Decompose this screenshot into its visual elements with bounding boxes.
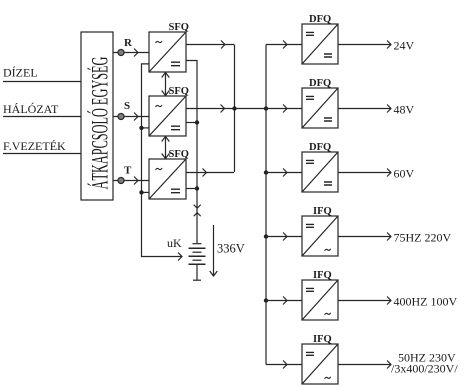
inverter IFQ 2 (400HZ 100V) bbox=[266, 270, 457, 320]
wire SFQ3 negative stub bbox=[186, 188, 197, 190]
rectifier SFQ 1 bbox=[149, 22, 189, 72]
wire SFQ1 left rail bbox=[142, 64, 183, 257]
arrow on R wire bbox=[134, 49, 138, 57]
converter DFQ 2 (48V) bbox=[266, 78, 415, 128]
disconnect symbol on battery line bbox=[194, 205, 201, 217]
node R bbox=[118, 49, 124, 55]
svg-text:24V: 24V bbox=[394, 38, 415, 52]
svg-text:75HZ 220V: 75HZ 220V bbox=[394, 230, 452, 244]
arrow on T wire bbox=[134, 177, 138, 185]
wire mains input line bbox=[3, 116, 81, 118]
double arrow between SFQ1 and SFQ2 bbox=[162, 72, 170, 96]
svg-text:336V: 336V bbox=[217, 242, 245, 256]
wire vertical link x=234 bbox=[234, 45, 236, 173]
junction main line / bus bbox=[264, 106, 268, 110]
wire phase R bbox=[113, 52, 149, 54]
svg-text:400HZ 100V: 400HZ 100V bbox=[394, 294, 458, 308]
svg-text:SFQ: SFQ bbox=[169, 22, 189, 33]
wire phase T bbox=[113, 180, 149, 182]
svg-text:60V: 60V bbox=[394, 166, 415, 180]
svg-text:IFQ: IFQ bbox=[313, 206, 332, 217]
svg-text:DÍZEL: DÍZEL bbox=[3, 66, 38, 80]
svg-text:HÁLÓZAT: HÁLÓZAT bbox=[3, 102, 59, 116]
svg-text:SFQ: SFQ bbox=[169, 86, 189, 97]
svg-text:IFQ: IFQ bbox=[313, 270, 332, 281]
wire SFQ3 output to vertical link bbox=[186, 172, 234, 174]
bus vertical line bbox=[265, 45, 267, 365]
rectifier SFQ 3 bbox=[149, 149, 189, 199]
svg-text:48V: 48V bbox=[394, 102, 415, 116]
arrow 336V voltage bbox=[210, 225, 218, 276]
svg-text:S: S bbox=[124, 100, 130, 112]
double arrow between SFQ2 and SFQ3 bbox=[162, 136, 170, 159]
junction bus 75HZ row bbox=[264, 234, 268, 238]
junction SFQ3 negative bbox=[195, 186, 199, 190]
wire SFQ2 left stub bbox=[142, 127, 150, 129]
wire SFQ1 output to vertical link bbox=[186, 44, 234, 46]
svg-text:/3x400/230V/: /3x400/230V/ bbox=[391, 362, 458, 376]
arrow uK toward battery bbox=[178, 253, 182, 261]
svg-text:T: T bbox=[124, 165, 132, 177]
svg-text:DFQ: DFQ bbox=[309, 142, 331, 153]
switching unit box ÁTKAPCSOLÓ EGYSÉG bbox=[81, 32, 113, 200]
arrow on SFQ3 output bbox=[203, 169, 207, 177]
battery 336V bbox=[189, 244, 206, 281]
inverter IFQ 3 (50HZ 230V) bbox=[266, 334, 458, 384]
junction bus 400HZ row bbox=[264, 298, 268, 302]
svg-text:F.VEZETÉK: F.VEZETÉK bbox=[3, 139, 66, 153]
junction left rail SFQ3 bbox=[139, 190, 143, 194]
junction SFQ2 negative bbox=[195, 120, 199, 124]
converter DFQ 3 (60V) bbox=[266, 142, 415, 192]
wire SFQ2 output main line to bus bbox=[186, 108, 266, 110]
wire phase S bbox=[113, 116, 149, 118]
arrow on SFQ1 output bbox=[221, 41, 225, 49]
svg-text:R: R bbox=[124, 37, 133, 49]
node T bbox=[118, 177, 124, 183]
svg-text:IFQ: IFQ bbox=[313, 334, 332, 345]
wire reserve line input bbox=[3, 153, 81, 155]
wire diesel input line bbox=[3, 81, 81, 83]
wire SFQ1 negative stub bbox=[186, 61, 197, 244]
junction main line / vertical link bbox=[232, 106, 236, 110]
svg-text:SFQ: SFQ bbox=[169, 149, 189, 160]
arrow on S wire bbox=[134, 113, 138, 121]
rectifier SFQ 2 bbox=[149, 86, 189, 136]
junction left rail SFQ2 bbox=[139, 126, 143, 130]
arrow on main line bbox=[221, 105, 225, 113]
junction bus 60V row bbox=[264, 170, 268, 174]
svg-text:DFQ: DFQ bbox=[309, 14, 331, 25]
node S bbox=[118, 113, 124, 119]
svg-text:uK: uK bbox=[167, 236, 182, 250]
inverter IFQ 1 (75HZ 220V) bbox=[266, 206, 451, 256]
converter DFQ 1 (24V) bbox=[266, 14, 415, 64]
svg-text:ÁTKAPCSOLÓ EGYSÉG: ÁTKAPCSOLÓ EGYSÉG bbox=[86, 56, 114, 189]
wire SFQ2 negative stub bbox=[186, 122, 197, 124]
svg-text:DFQ: DFQ bbox=[309, 78, 331, 89]
wire SFQ3 left stub bbox=[142, 191, 150, 193]
